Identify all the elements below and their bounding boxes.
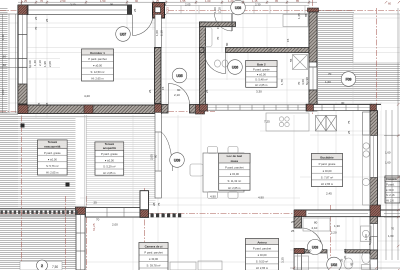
svg-text:P pard. gresie: P pard. gresie [44,151,61,155]
bath shower [293,55,308,70]
svg-text:U07: U07 [120,32,126,36]
left wall [18,5,27,114]
svg-text:88: 88 [45,102,49,106]
svg-text:masa: masa [231,159,239,163]
svg-text:1,00: 1,00 [213,7,217,13]
wall C upper white strip [155,15,161,48]
svg-text:1,60: 1,60 [325,80,331,84]
svg-text:P pard. gresie: P pard. gresie [101,152,118,156]
antreu closet [303,218,330,231]
svg-text:Hl: 2,65 m: Hl: 2,65 m [103,171,116,175]
svg-text:2,50: 2,50 [60,0,66,3]
svg-text:7,50: 7,50 [52,265,58,269]
svg-text:25: 25 [291,229,295,233]
svg-text:1,40: 1,40 [33,60,37,66]
circle U08 [231,0,246,15]
svg-text:Bucătărie: Bucătărie [320,156,334,160]
svg-text:S: 5,48 m²: S: 5,48 m² [255,78,268,82]
room table Dormitor 1 [82,49,114,81]
svg-text:6,23: 6,23 [166,7,170,13]
svg-text:2,10: 2,10 [70,2,76,6]
svg-text:1,00: 1,00 [155,30,159,36]
room table Baie 2 [246,61,277,88]
svg-text:1,00: 1,00 [205,0,211,3]
axis line horizontal mid [0,111,215,113]
wc door arc [327,253,345,270]
axis line vertical right3 [330,205,332,270]
svg-text:2,00: 2,00 [1,89,5,95]
bath south wall with door gap [200,48,310,53]
chairs bottom [208,192,218,199]
section marker square 1 [21,124,25,128]
construction lines horizontal [0,13,400,15]
svg-text:20: 20 [343,255,347,259]
svg-text:40: 40 [308,249,312,253]
svg-text:2,45: 2,45 [326,192,332,196]
svg-text:35: 35 [37,102,41,106]
room table Bucatarie [312,154,343,187]
bath tub [203,28,212,47]
svg-text:U08: U08 [235,6,241,10]
couch [198,261,222,270]
axis line vertical right1 [312,0,314,115]
svg-text:acoperită: acoperită [103,146,116,150]
svg-text:Hl: 2,6: Hl: 2,6 [386,199,394,203]
axis line horizontal top [0,9,400,11]
svg-text:1,78: 1,78 [280,79,284,85]
svg-text:2,30: 2,30 [255,2,261,6]
svg-text:70: 70 [40,0,44,3]
svg-text:S: 9,50 m²: S: 9,50 m² [256,260,269,264]
svg-text:25: 25 [133,8,137,12]
svg-text:Dormitor 1: Dormitor 1 [90,51,105,55]
svg-text:Np:90: Np:90 [305,77,309,85]
svg-text:70: 70 [391,227,395,231]
door U08 leaf [231,14,233,32]
svg-text:1,60: 1,60 [385,161,391,165]
svg-text:15: 15 [286,38,290,42]
room table Terasa acoperita [95,142,124,175]
svg-text:30: 30 [341,101,345,105]
svg-text:90: 90 [177,88,181,92]
circle U05 [172,68,187,83]
chimney block [153,3,165,19]
axis line horizontal bottom [0,213,400,215]
jamb block [127,5,132,15]
top wall window band [18,5,166,15]
wall B2 with door gap [155,104,205,114]
svg-text:● ±0,00: ● ±0,00 [257,73,267,77]
svg-text:Antreu: Antreu [257,241,267,245]
svg-text:S: 5,29 m²: S: 5,29 m² [103,165,116,169]
svg-text:80: 80 [225,42,229,46]
top dimension line row [18,1,317,5]
svg-text:15: 15 [343,248,347,252]
left dim lines [0,14,18,113]
svg-text:Np:90: Np:90 [368,237,372,245]
svg-text:7,25: 7,25 [264,120,270,124]
interior dim texts [84,72,345,253]
svg-text:Hl: 2,65 m: Hl: 2,65 m [321,182,334,186]
svg-text:1,98: 1,98 [43,61,47,67]
mid wall B [18,105,162,116]
svg-text:neacoperită: neacoperită [44,144,61,148]
svg-text:1,50: 1,50 [100,0,106,3]
covered terrace west edge line [85,115,87,207]
svg-text:4,20: 4,20 [84,94,90,98]
svg-text:Hl: 2,65 m: Hl: 2,65 m [255,83,268,87]
tv cabinet [170,262,196,270]
svg-text:25: 25 [156,0,160,3]
room table Loc de luat masa [219,153,250,190]
svg-text:25: 25 [205,89,209,93]
axis bubble 2 [37,260,48,270]
circle U03 [307,239,322,254]
svg-text:S: 11,32 m²: S: 11,32 m² [227,179,241,183]
bottom dim line [290,267,400,269]
right counter [363,135,371,205]
wall G pillar [140,191,149,218]
svg-text:95: 95 [110,2,114,6]
antreu west wall H [294,217,304,270]
deck texture top right terrace [318,9,354,102]
svg-text:Cămără: Cămără [386,177,397,181]
svg-text:U06: U06 [232,65,238,69]
axis line vertical left3 [64,196,66,270]
circle U07 [116,27,131,42]
fridge [363,112,371,135]
svg-text:● ±0,00: ● ±0,00 [93,64,103,68]
bottom wall E [294,205,400,217]
bath north partition [200,22,236,27]
svg-text:S: 39,78 m²: S: 39,78 m² [147,264,161,268]
svg-text:2,05: 2,05 [185,2,191,6]
svg-text:55: 55 [289,58,293,62]
svg-text:70: 70 [216,36,220,40]
svg-text:S: 2,16: S: 2,16 [386,193,395,197]
svg-text:1,60: 1,60 [385,151,391,155]
svg-text:● ±0,00: ● ±0,00 [48,157,58,161]
axis line vertical left [21,0,23,270]
right margin dim lines [384,8,400,260]
svg-text:4,90: 4,90 [210,195,216,199]
room table Terasa neacoperita [38,140,68,175]
svg-text:61,25: 61,25 [92,223,96,231]
svg-text:,60: ,60 [2,63,6,67]
glazed band top (hall/bath north) [166,6,309,14]
terrace south wall F [76,207,86,270]
top dim labels [24,0,300,3]
svg-text:● ±0,00: ● ±0,00 [257,253,267,257]
svg-text:● ±0,00: ● ±0,00 [149,257,159,261]
svg-text:2: 2 [41,264,43,268]
svg-text:U03: U03 [312,245,318,249]
corner block top-left [18,5,28,15]
top right corner dims [385,1,400,3]
svg-text:2,10: 2,10 [218,7,222,13]
pool white rect top right [353,14,400,63]
right wall lower segment below wall E [370,217,378,270]
armchair left [190,164,203,176]
svg-text:25: 25 [347,130,351,134]
antreu cabinet [295,256,309,270]
svg-text:Hl: 2,65 m: Hl: 2,65 m [91,77,104,81]
svg-text:Hl: 2,65 m: Hl: 2,65 m [46,171,59,175]
svg-text:P pard. gresie: P pard. gresie [319,162,336,166]
svg-text:P pard. parchet: P pard. parchet [88,57,107,61]
circle U02 [327,257,342,270]
wc toilet [362,252,370,264]
terrace edge wall with dash ticks [0,209,78,216]
right wall upper with window F09 [308,8,319,104]
svg-text:2,00: 2,00 [112,223,118,227]
door U03 arc [301,228,323,250]
svg-text:2,20: 2,20 [331,231,337,235]
svg-text:Hl: 2,65 m: Hl: 2,65 m [228,186,241,190]
axis line vertical left2 [86,196,88,270]
svg-text:S: 5,76 m²: S: 5,76 m² [46,164,59,168]
svg-text:85: 85 [296,0,300,3]
svg-text:P pard.: P pard. [386,182,395,186]
svg-text:25: 25 [34,16,38,20]
door U05 leaf+arc (hall to living) [169,84,190,105]
svg-text:● ±0,00: ● ±0,00 [105,158,115,162]
deck texture covered terrace [87,115,156,206]
svg-text:● ±0,00: ● ±0,00 [230,172,240,176]
svg-text:25: 25 [148,89,152,93]
svg-text:3,30: 3,30 [256,90,262,94]
svg-text:Baie 2: Baie 2 [257,62,266,66]
svg-text:2,10: 2,10 [38,60,42,66]
svg-text:25: 25 [94,201,98,205]
deck texture terrace [18,117,76,207]
svg-text:70: 70 [328,72,332,76]
svg-text:Camera de zi: Camera de zi [145,244,163,248]
svg-text:4,90: 4,90 [258,196,264,200]
svg-text:95: 95 [275,0,279,3]
dashed beam squares [151,213,182,217]
interior wall C [155,48,162,104]
svg-text:1,20: 1,20 [228,0,234,3]
svg-text:U02: U02 [331,263,337,267]
svg-text:S: 12,50 m²: S: 12,50 m² [91,70,105,74]
right wall lower [370,111,378,217]
svg-text:P pard. gresie: P pard. gresie [253,67,270,71]
construction lines vertical [35,14,37,118]
svg-text:P pard. parchet: P pard. parchet [144,251,163,255]
svg-text:P pard. parchet: P pard. parchet [225,165,244,169]
svg-text:80: 80 [154,154,158,158]
living west window band [86,208,141,218]
svg-text:75: 75 [347,120,351,124]
bath west wall [200,22,206,106]
chairs top [208,147,218,154]
svg-text:85: 85 [304,13,308,17]
svg-text:3,25: 3,25 [281,257,285,263]
svg-text:15: 15 [216,25,220,29]
terrace glazed wall C lower [155,113,161,199]
deck texture left mid [8,113,19,270]
svg-text:● ±0,00: ● ±0,00 [322,169,332,173]
wc partition [304,250,370,253]
svg-text:2,10: 2,10 [160,30,164,36]
svg-text:1,40: 1,40 [1,34,5,40]
svg-text:60: 60 [388,2,392,6]
svg-text:15: 15 [269,48,273,52]
svg-text:75: 75 [157,202,161,206]
door U06 arc [205,53,226,74]
svg-text:70: 70 [96,218,100,222]
axis line vertical G [143,188,145,270]
svg-text:● ±0,0: ● ±0,0 [386,188,394,192]
circle F09 [341,72,356,87]
circle U09 [170,153,185,168]
dining table [203,153,244,192]
svg-text:1,60: 1,60 [388,234,394,238]
svg-text:hp:90: hp:90 [28,60,32,68]
corridor south window band [200,104,317,111]
svg-text:70: 70 [34,26,38,30]
door U07 leaf+arc [133,15,154,36]
door opening U07 (white gap) [132,4,153,15]
hob circles [279,117,283,121]
sink crossed squares [316,116,337,132]
svg-text:90: 90 [135,0,139,3]
wc sink [344,258,353,269]
svg-text:U09: U09 [174,158,180,162]
svg-text:U05: U05 [176,74,182,78]
room table Antreu [246,239,279,270]
svg-text:80: 80 [314,221,318,225]
circle U06 [228,60,243,75]
svg-text:1,30: 1,30 [334,224,340,228]
lobby niche cabinet [283,15,308,27]
svg-text:1,65: 1,65 [297,13,301,19]
svg-text:28: 28 [152,202,156,206]
svg-text:P pard. parchet: P pard. parchet [253,247,272,251]
room table Camera de zi [139,243,168,270]
svg-text:2,08: 2,08 [48,61,52,67]
kitchen north wall D with window [307,104,382,111]
svg-text:25: 25 [45,18,49,22]
bath ovals [215,60,221,67]
svg-text:25: 25 [24,0,28,3]
kitchen counter top [266,113,309,131]
svg-text:2,10: 2,10 [174,93,180,97]
axis line vertical right2 [376,8,378,270]
svg-text:,60: ,60 [2,54,6,58]
terrace door arc [161,132,172,171]
svg-text:25: 25 [291,220,295,224]
room table Camara [385,176,400,203]
svg-text:35: 35 [340,258,344,262]
wc counter [361,226,372,242]
svg-text:F09: F09 [346,77,352,81]
deck texture left strip [0,8,8,270]
svg-text:2,10: 2,10 [312,226,318,230]
svg-text:Hl: 2,65 m: Hl: 2,65 m [256,266,269,270]
svg-text:S: 7,87 m²: S: 7,87 m² [321,176,334,180]
svg-text:15: 15 [161,86,165,90]
section marker square 2 [66,183,70,187]
svg-text:Loc de luat: Loc de luat [227,154,242,158]
svg-text:45: 45 [350,262,354,266]
